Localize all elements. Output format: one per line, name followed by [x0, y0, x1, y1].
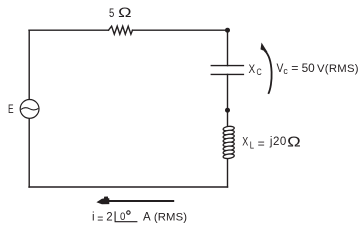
svg-text:=: =	[97, 213, 103, 225]
svg-text:C: C	[256, 67, 262, 77]
svg-text:=: =	[258, 138, 265, 150]
svg-text:2: 2	[106, 211, 112, 223]
svg-text:0: 0	[120, 211, 125, 223]
svg-text:=: =	[291, 61, 298, 75]
svg-text:c: c	[283, 66, 288, 76]
svg-text:Ω: Ω	[118, 5, 131, 21]
svg-text:A: A	[143, 211, 151, 223]
svg-text:L: L	[250, 141, 255, 152]
svg-text:X: X	[242, 135, 248, 149]
svg-text:50: 50	[302, 61, 316, 75]
svg-text:i: i	[92, 211, 95, 223]
svg-text:X: X	[249, 64, 256, 76]
svg-text:5: 5	[109, 8, 114, 20]
svg-text:(RMS): (RMS)	[154, 211, 187, 223]
svg-text:V(RMS): V(RMS)	[317, 63, 359, 75]
svg-text:E: E	[8, 104, 14, 116]
svg-text:j20: j20	[269, 136, 286, 148]
svg-text:Ω: Ω	[287, 135, 301, 151]
